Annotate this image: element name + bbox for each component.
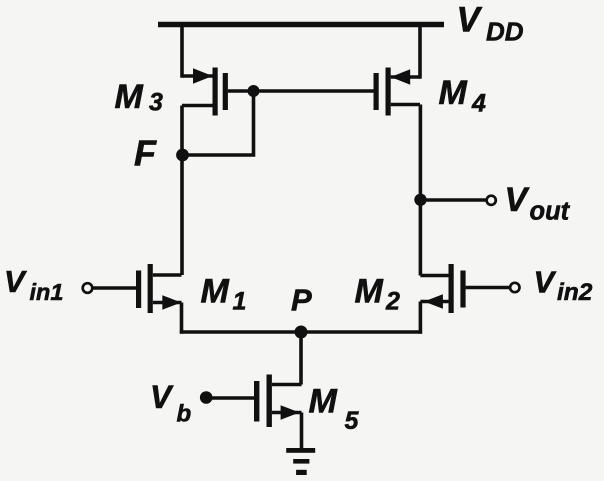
transistor M2 [420,264,465,313]
wire: Vin1 terminal to M1 gate [93,286,137,290]
svg-text:DD: DD [486,17,524,47]
wire: diode connection (gate node down to node F) [182,91,254,155]
ground symbol [286,448,315,475]
svg-text:5: 5 [345,407,360,435]
VDD power rail [158,22,444,28]
label M5 [309,383,360,436]
label Vin1 [4,264,63,305]
junction: Vout node dot [414,194,426,206]
transistor M1 [136,264,182,313]
terminal: Vout open circle [487,196,496,205]
svg-text:in2: in2 [557,279,593,306]
label Vout [505,181,571,226]
junction: mirror gate node [248,85,260,97]
svg-text:M: M [355,273,384,311]
transistor M5 [254,375,302,428]
wire: M2 gate to Vin2 terminal [466,286,510,290]
svg-text:2: 2 [385,288,400,316]
svg-text:M: M [439,74,468,112]
terminal: Vin2 open circle [510,283,519,292]
wire: VDD rail to M3 source [180,25,184,78]
svg-text:3: 3 [149,89,163,117]
wire: tail bus (node P) [180,330,422,334]
wire: M3 drain down to M1 drain (through node F) [180,106,184,276]
wire: node P down to M5 drain [299,332,303,385]
wire: M4 drain down to M2 drain (through Vout node) [419,105,423,276]
wire: VDD rail to M4 source [418,25,422,79]
label Vin2 [534,264,593,306]
transistor M4 [374,68,421,116]
wire: Vout tap [421,198,487,202]
svg-text:b: b [177,401,192,428]
label Vb [150,379,191,428]
svg-text:P: P [291,283,312,318]
label VDD [457,1,524,47]
label M3 [115,78,164,117]
wire: mirror gate bus (M3 gate to M4 gate) [254,89,374,93]
svg-text:V: V [150,379,174,415]
svg-text:F: F [134,133,157,174]
svg-text:V: V [534,264,557,299]
label M1 [201,273,247,316]
svg-text:in1: in1 [30,279,64,305]
terminal: Vb filled dot [200,391,213,404]
svg-text:1: 1 [233,288,247,316]
wire: Vb terminal to M5 gate [207,396,254,400]
svg-text:M: M [309,383,338,421]
svg-text:M: M [115,78,144,116]
node F junction dot [176,149,189,162]
junction: node P dot [295,326,308,339]
svg-text:V: V [457,1,483,40]
wire: M2 source down to tail bus [419,302,423,334]
label M2 [355,273,401,316]
transistor M3 [182,68,254,116]
svg-text:4: 4 [471,90,486,118]
wire: M5 source down to ground [300,413,304,450]
wire: M1 source down to tail bus [180,303,184,334]
terminal: Vin1 open circle [83,283,93,293]
svg-text:V: V [505,181,531,219]
svg-text:out: out [530,198,571,226]
svg-text:M: M [201,273,230,311]
svg-text:V: V [4,264,27,299]
label M4 [439,74,487,117]
